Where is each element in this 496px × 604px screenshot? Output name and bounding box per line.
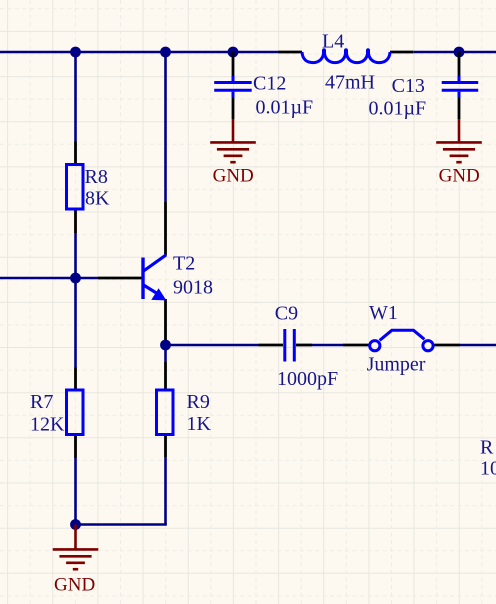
svg-text:W1: W1 bbox=[369, 302, 398, 324]
svg-text:C9: C9 bbox=[275, 303, 298, 325]
svg-text:R8: R8 bbox=[85, 166, 108, 188]
capacitor C12 bbox=[214, 52, 252, 119]
wire bottom rail bbox=[75, 523, 167, 526]
wire R8 bottom to base node bbox=[74, 233, 77, 278]
inductor L4 bbox=[279, 50, 414, 63]
node junction base bbox=[70, 273, 81, 284]
wire C9 to W1 bbox=[312, 344, 343, 347]
wire left input to base node bbox=[0, 277, 98, 280]
svg-text:9018: 9018 bbox=[173, 277, 213, 299]
resistor R8 bbox=[67, 142, 84, 234]
transistor T2 bbox=[98, 202, 166, 341]
node junction emitter bbox=[160, 340, 171, 351]
wire top rail left segment bbox=[0, 51, 279, 54]
svg-text:C13: C13 bbox=[392, 75, 425, 97]
node junction top at C12 bbox=[228, 47, 239, 58]
ground symbol under C12 bbox=[210, 119, 256, 162]
wire R7 bottom to ground node bbox=[74, 458, 77, 525]
svg-text:GND: GND bbox=[439, 166, 480, 187]
svg-text:47mH: 47mH bbox=[325, 72, 375, 94]
wire W1 to right edge bbox=[460, 344, 496, 347]
node junction ground bbox=[70, 519, 81, 530]
wire R9 bottom to ground rail bbox=[164, 457, 167, 525]
resistor R9 bbox=[157, 362, 174, 457]
wire from top rail down to R8 bbox=[74, 52, 77, 142]
capacitor C9 bbox=[259, 329, 313, 362]
node junction top at R8 column bbox=[70, 47, 81, 58]
wire from top rail down to collector bbox=[164, 52, 167, 202]
svg-text:GND: GND bbox=[213, 166, 254, 187]
svg-text:10: 10 bbox=[480, 458, 496, 480]
svg-text:0.01µF: 0.01µF bbox=[256, 97, 314, 119]
wire top rail right segment bbox=[413, 51, 496, 54]
svg-text:1000pF: 1000pF bbox=[277, 368, 338, 390]
wire base node down to R7 bbox=[74, 278, 77, 368]
svg-text:L4: L4 bbox=[322, 30, 344, 52]
svg-text:R9: R9 bbox=[187, 391, 210, 413]
ground symbol under C13 bbox=[436, 119, 482, 162]
node junction top at collector column bbox=[160, 47, 171, 58]
svg-text:8K: 8K bbox=[85, 188, 110, 210]
svg-text:0.01µF: 0.01µF bbox=[369, 98, 427, 120]
capacitor C13 bbox=[442, 52, 479, 119]
wire emitter node right bbox=[166, 344, 259, 347]
svg-text:T2: T2 bbox=[173, 253, 195, 275]
ground symbol bottom bbox=[53, 525, 99, 570]
wire emitter node down bbox=[164, 345, 167, 362]
svg-text:GND: GND bbox=[54, 574, 95, 595]
node junction top at C13 bbox=[454, 47, 465, 58]
resistor R7 bbox=[67, 368, 84, 459]
svg-text:1K: 1K bbox=[187, 413, 212, 435]
svg-text:C12: C12 bbox=[253, 73, 286, 95]
svg-text:Jumper: Jumper bbox=[367, 354, 426, 376]
svg-text:R7: R7 bbox=[30, 391, 53, 413]
jumper W1 bbox=[343, 330, 460, 351]
svg-text:12K: 12K bbox=[30, 414, 65, 436]
svg-text:R: R bbox=[480, 437, 494, 459]
